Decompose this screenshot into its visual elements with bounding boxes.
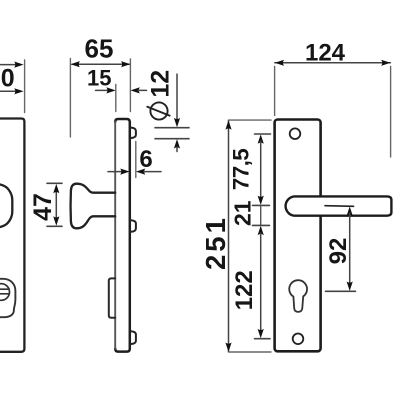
ext line plate left top (274, 67, 276, 116)
dim phi12 arrow up (174, 139, 180, 148)
dim 92 arrow down (347, 282, 353, 291)
dim 122 line (260, 233, 262, 332)
dim 21 line (260, 205, 262, 225)
dim phi12 arrow down (174, 118, 180, 127)
tick 47 top (47, 182, 62, 184)
dim 6 arrow left (120, 169, 129, 175)
ext line left plate (24, 60, 26, 113)
dim 47 arrow down (53, 216, 59, 225)
dim 15 tail left (96, 89, 109, 91)
knob front arc (0, 184, 12, 228)
phi symbol slash (147, 107, 169, 116)
tick lever center (253, 204, 270, 206)
ext line plate front (115, 85, 117, 112)
tick 21 bottom (253, 224, 270, 226)
phi symbol circle (150, 102, 167, 119)
plate side outline (115, 119, 130, 352)
dim 50 arrow bottom (14, 88, 23, 94)
dim 124 arrow right (381, 60, 390, 66)
dim 6 arrow right (136, 169, 145, 175)
svg-text:92: 92 (325, 238, 352, 265)
dim 122 arrow down (258, 329, 264, 338)
knob side profile (71, 184, 116, 229)
tick bottom hole (255, 338, 271, 340)
spindle bump top (130, 128, 136, 138)
cylinder protrusion side (109, 278, 115, 317)
dim 50 tail top (0, 64, 15, 66)
dim 124 arrow left (275, 60, 284, 66)
ext line knob face (69, 59, 71, 138)
plate side front face (114, 122, 116, 349)
dim 92 line (349, 213, 351, 285)
dim 15 arrow right (131, 87, 140, 93)
dim 65 arrow left (71, 61, 80, 67)
svg-text:65: 65 (85, 34, 114, 64)
dim 251 arrow down (225, 343, 231, 352)
plate outline left view (0, 119, 24, 352)
bump bottom (130, 331, 136, 344)
svg-text:12: 12 (147, 70, 175, 98)
bottom screw hole (293, 334, 304, 345)
dim 251 arrow up (225, 120, 231, 129)
dim 65 line (72, 63, 130, 65)
dim phi12 tail bottom (176, 147, 178, 152)
svg-text:124: 124 (305, 39, 346, 66)
tick phi12 bottom (155, 138, 189, 140)
dim 65 arrow right (121, 61, 130, 67)
svg-text:21: 21 (230, 200, 256, 226)
svg-text:251: 251 (200, 215, 231, 270)
dim 47 line (55, 188, 57, 222)
tick phi12 top (155, 127, 189, 129)
svg-text:15: 15 (87, 65, 111, 90)
cylinder slot lines (0, 289, 9, 294)
dim 775 arrow up (258, 134, 264, 143)
ext line lever end (390, 67, 392, 158)
dim 15 arrow left (106, 87, 115, 93)
top screw hole (290, 128, 301, 139)
svg-text:50: 50 (0, 65, 15, 93)
ext line bump (135, 142, 137, 178)
dim 775 arrow down (258, 196, 264, 205)
dim phi12 leader line (176, 74, 178, 123)
cylinder escutcheon outer (0, 279, 15, 317)
dim 50 arrow top (14, 62, 23, 68)
lever handle (286, 196, 392, 215)
ext tick 251 bottom (229, 351, 272, 353)
tick 47 bottom (47, 225, 62, 227)
ext tick 251 top (229, 119, 272, 121)
lever inner line (325, 205, 354, 208)
dim 47 arrow up (53, 184, 59, 193)
dim 50 tail bottom (0, 90, 15, 92)
cylinder inner circle (0, 284, 10, 301)
svg-text:77,5: 77,5 (228, 149, 253, 190)
dim 775 line (260, 141, 262, 199)
dim 6 tail left (108, 171, 121, 173)
svg-text:6: 6 (139, 146, 152, 173)
dim 15 tail right (138, 89, 147, 91)
bump middle (130, 220, 136, 232)
dim 6 tail right (144, 171, 161, 173)
keyhole (289, 280, 307, 312)
tick top hole (255, 133, 271, 135)
plate front outline (275, 120, 321, 352)
dim 122 arrow up (258, 226, 264, 235)
tick keyhole center (326, 290, 356, 292)
dim 251 line (228, 120, 230, 351)
svg-text:122: 122 (231, 270, 258, 310)
svg-text:47: 47 (29, 193, 57, 221)
dim 92 arrow up (347, 207, 353, 216)
ext line plate back (129, 59, 131, 112)
dim 124 line (275, 62, 391, 64)
